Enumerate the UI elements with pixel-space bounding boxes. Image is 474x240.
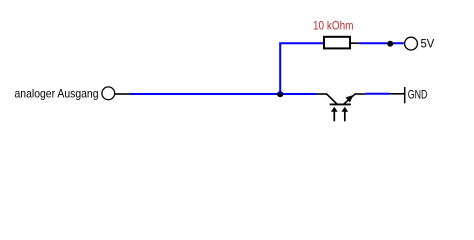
phototransistor T1 collector diagonal (326, 94, 337, 104)
resistor R1 body (324, 37, 350, 49)
svg-text:10 kOhm: 10 kOhm (313, 19, 354, 33)
wire bottom horizontal (output net) (131, 93, 317, 95)
wire to 5V (359, 42, 404, 44)
terminal 5V (405, 37, 418, 50)
phototransistor T1 emitter diagonal (344, 94, 356, 104)
GND terminal bar (404, 87, 406, 103)
pin of GND terminal (390, 93, 405, 95)
svg-text:5V: 5V (421, 37, 435, 51)
svg-text:GND: GND (408, 88, 428, 102)
phototransistor T1 emitter lead (355, 93, 365, 95)
phototransistor T1 base bar (330, 103, 351, 105)
light arrow 1 head (331, 107, 338, 112)
wire vertical to resistor (279, 43, 281, 94)
junction near 5V (387, 41, 393, 47)
terminal analoger Ausgang (102, 87, 115, 100)
phototransistor T1 collector lead (317, 93, 327, 95)
pin of analoger Ausgang terminal (115, 93, 131, 95)
svg-text:analoger Ausgang: analoger Ausgang (15, 86, 99, 100)
light arrow 1 shaft (333, 111, 335, 122)
light arrow 2 shaft (344, 111, 346, 122)
phototransistor T1 emitter arrowhead (346, 95, 354, 103)
pin resistor right (351, 42, 359, 44)
light arrow 2 head (341, 107, 348, 112)
wire top horizontal to resistor (279, 42, 323, 44)
junction bottom (277, 91, 283, 97)
wire emitter to GND (365, 93, 390, 95)
